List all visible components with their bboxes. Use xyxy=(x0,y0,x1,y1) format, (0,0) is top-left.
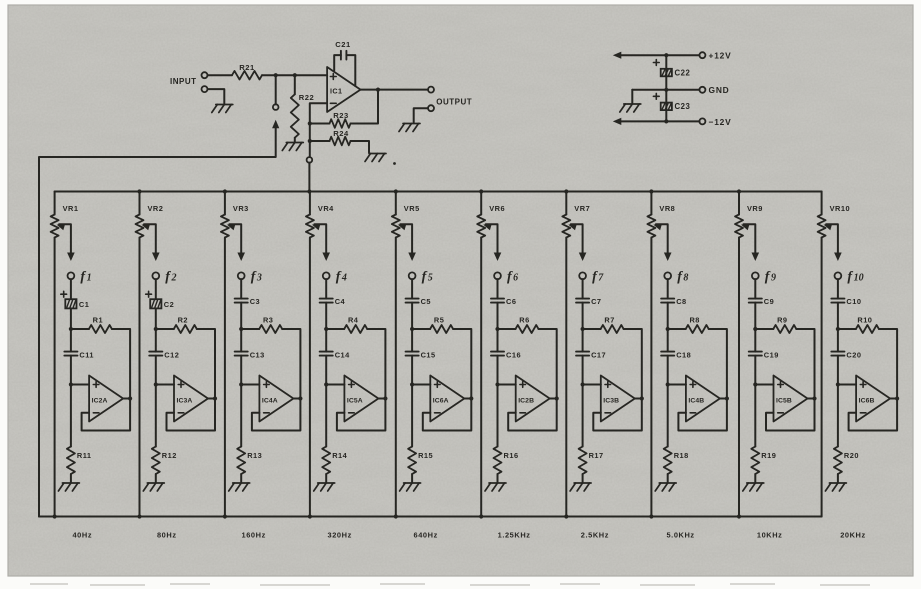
svg-text:1.25KHz: 1.25KHz xyxy=(498,531,531,540)
label VR8 xyxy=(659,204,675,213)
label C10 xyxy=(846,297,861,306)
wire: node to R10 xyxy=(838,328,856,330)
wire: VR3 bottom lead to bottom bus xyxy=(224,238,226,517)
node: top bus junction VR5 xyxy=(394,189,398,193)
resistor R19 xyxy=(751,447,759,475)
wire: node to C12 xyxy=(155,329,157,352)
node: bottom bus junction ch5 xyxy=(394,514,398,518)
label -12V xyxy=(709,117,732,127)
wire: VR6 top lead xyxy=(480,192,482,215)
label C13 xyxy=(250,350,265,359)
arrow: wiper points to f5 xyxy=(408,253,416,262)
wire: + input xyxy=(71,384,89,386)
arrow: wiper points to f3 xyxy=(237,253,245,262)
arrow: wiper points to f9 xyxy=(752,253,760,262)
node: R4 junction xyxy=(324,327,328,331)
label C16 xyxy=(506,350,521,359)
wire: + node to R20 xyxy=(837,385,839,447)
arrow: VR7 wiper head xyxy=(568,224,577,231)
wire: C11 to + input node xyxy=(70,356,72,385)
capacitor C2 (electrolytic) xyxy=(150,299,161,308)
node: + input junction xyxy=(753,382,757,386)
node: bus junction at IC1 feedback / VR4 xyxy=(307,189,311,193)
potentiometer VR7 xyxy=(562,215,570,238)
node: R8 junction xyxy=(666,327,670,331)
wire: feedback loop ch1 xyxy=(82,399,131,431)
wire: node to C14 xyxy=(325,329,327,352)
svg-text:R8: R8 xyxy=(689,315,699,324)
wire: R11 to ground xyxy=(70,474,72,482)
arrow: wiper points to f8 xyxy=(664,253,672,262)
wire: VR1 bottom lead to bottom bus xyxy=(54,238,56,517)
svg-text:VR7: VR7 xyxy=(574,204,590,213)
svg-text:R12: R12 xyxy=(162,451,177,460)
node: R7 junction xyxy=(581,327,585,331)
svg-text:VR3: VR3 xyxy=(233,204,249,213)
label C20 xyxy=(846,350,861,359)
wire: VR8 bottom lead to bottom bus xyxy=(650,238,652,517)
label f8 xyxy=(677,270,688,285)
capacitor C13 xyxy=(235,352,248,356)
resistor R13 xyxy=(237,447,245,475)
resistor R15 xyxy=(408,447,416,475)
label R24 xyxy=(333,129,349,138)
svg-text:C19: C19 xyxy=(764,350,779,359)
wire: connector to top bus xyxy=(308,163,310,192)
svg-text:R14: R14 xyxy=(332,451,347,460)
svg-text:R5: R5 xyxy=(434,315,444,324)
capacitor C7 xyxy=(576,299,589,303)
resistor R21 xyxy=(232,71,262,80)
wire: bus return line from input selector xyxy=(39,125,276,517)
label f5 xyxy=(422,270,433,285)
node: bottom bus junction ch7 xyxy=(564,514,568,518)
wire: node to C19 xyxy=(754,329,756,352)
resistor R18 xyxy=(664,447,672,475)
svg-text:f4: f4 xyxy=(336,270,347,285)
label f7 xyxy=(592,270,604,285)
wire: C15 to + input node xyxy=(411,356,413,385)
wire: feedback loop ch6 xyxy=(508,399,557,431)
resistor R9 xyxy=(773,325,796,333)
label IC4B xyxy=(688,398,704,405)
label R4 xyxy=(348,315,359,324)
wire: +12V rail xyxy=(617,54,700,56)
wire: f5 to C5 xyxy=(411,279,413,298)
wire: OUTPUT lower to ground xyxy=(414,108,428,122)
capacitor C17 xyxy=(576,352,589,356)
node: output junction ch1 xyxy=(128,396,132,400)
op-amp IC2B xyxy=(516,376,550,422)
arrow: VR5 wiper head xyxy=(398,224,407,231)
label VR5 xyxy=(404,204,420,213)
IC3A - marking xyxy=(178,412,184,414)
label C7 xyxy=(591,297,601,306)
label R13 xyxy=(247,451,262,460)
wire: IC4B output to rail xyxy=(720,398,727,400)
capacitor C1 (electrolytic) xyxy=(65,299,76,308)
node: top bus junction VR9 xyxy=(737,189,741,193)
IC4B + marking xyxy=(690,382,696,388)
svg-text:C1: C1 xyxy=(79,300,89,309)
arrow: VR3 wiper head xyxy=(227,224,236,231)
wire: C2 to node xyxy=(155,308,157,329)
svg-text:R2: R2 xyxy=(178,315,188,324)
svg-text:IC3B: IC3B xyxy=(603,398,619,405)
wire: R16 to ground xyxy=(497,474,499,482)
svg-text:IC1: IC1 xyxy=(330,87,342,96)
capacitor C4 xyxy=(320,299,333,303)
label C1 xyxy=(79,300,89,309)
wire: R14 to ground xyxy=(325,474,327,482)
resistor R17 xyxy=(579,447,587,475)
wire: R18 to ground xyxy=(667,474,669,482)
wire: R17 to ground xyxy=(582,474,584,482)
label 20KHz xyxy=(840,531,866,540)
wire: feedback - input run xyxy=(310,103,327,157)
terminal: OUTPUT lower xyxy=(428,105,434,111)
svg-text:VR2: VR2 xyxy=(148,204,164,213)
wire: IC1 output xyxy=(361,89,429,91)
arrow: VR10 wiper head xyxy=(824,224,833,231)
label OUTPUT xyxy=(436,98,472,107)
wire: feedback loop ch9 xyxy=(766,399,815,431)
wire: top bus xyxy=(55,191,822,193)
terminal f9 xyxy=(752,272,759,279)
svg-text:GND: GND xyxy=(709,85,730,95)
node: bottom bus junction ch2 xyxy=(137,514,141,518)
label C14 xyxy=(335,350,350,359)
resistor R20 xyxy=(834,447,842,475)
svg-text:R18: R18 xyxy=(674,451,689,460)
wire: R5 to feedback rail xyxy=(453,329,471,399)
wire: VR6 bottom lead to bottom bus xyxy=(480,238,482,517)
op-amp IC4B xyxy=(686,376,720,422)
mark: period after ground xyxy=(393,162,396,165)
wire: VR4 bottom lead to bottom bus xyxy=(309,238,311,517)
node: bottom bus junction ch4 xyxy=(308,514,312,518)
label C2 xyxy=(164,300,174,309)
node: R5 junction xyxy=(410,327,414,331)
potentiometer VR9 xyxy=(735,215,743,238)
wire: VR1 wiper xyxy=(59,224,71,258)
label IC1 xyxy=(330,87,342,96)
node: output junction ch2 xyxy=(213,396,217,400)
node: bottom bus junction ch8 xyxy=(649,514,653,518)
terminal: OUTPUT upper xyxy=(428,87,434,93)
label R19 xyxy=(761,451,776,460)
svg-text:VR4: VR4 xyxy=(318,204,334,213)
potentiometer VR1 xyxy=(51,215,59,238)
wire: R15 to ground xyxy=(411,474,413,482)
terminal: INPUT lower xyxy=(202,86,208,92)
arrow: VR6 wiper head xyxy=(483,224,492,231)
svg-text:R15: R15 xyxy=(418,451,433,460)
wire: C4 to node xyxy=(325,303,327,329)
label IC2B xyxy=(518,398,534,405)
wire: IC4A output to rail xyxy=(293,398,300,400)
label C21 xyxy=(335,40,351,49)
wire: + node to R19 xyxy=(754,385,756,447)
label R2 xyxy=(178,315,188,324)
arrow: +12V rail left xyxy=(613,52,622,59)
label VR3 xyxy=(233,204,249,213)
wire: node to C17 xyxy=(582,329,584,352)
svg-text:VR5: VR5 xyxy=(404,204,420,213)
wire: R13 to ground xyxy=(240,474,242,482)
node: bottom bus junction ch9 xyxy=(737,514,741,518)
IC1 - input marking xyxy=(330,102,336,104)
label R17 xyxy=(589,451,604,460)
svg-text:C3: C3 xyxy=(250,297,260,306)
svg-text:640Hz: 640Hz xyxy=(414,531,438,540)
wire: + node to R18 xyxy=(667,385,669,447)
ground of supply xyxy=(620,104,641,112)
node: output junction ch8 xyxy=(725,396,729,400)
node: output junction ch10 xyxy=(895,396,899,400)
wire: VR9 wiper xyxy=(744,224,756,258)
label C5 xyxy=(421,297,431,306)
label 80Hz xyxy=(157,531,177,540)
potentiometer VR2 xyxy=(136,215,144,238)
wire: R22 bottom lead xyxy=(294,138,296,142)
arrow: wiper points to f4 xyxy=(322,253,330,262)
wire: node to R1 xyxy=(71,328,89,330)
IC5B + marking xyxy=(778,382,784,388)
label 10KHz xyxy=(757,531,783,540)
wire: R9 to feedback rail xyxy=(796,329,814,399)
wire: IC5A output to rail xyxy=(378,398,385,400)
resistor R2 xyxy=(174,325,197,333)
svg-text:R24: R24 xyxy=(333,129,349,138)
IC3B + marking xyxy=(605,382,611,388)
node: junction at R22 xyxy=(293,73,297,77)
svg-text:R11: R11 xyxy=(77,451,92,460)
wire: VR7 top lead xyxy=(565,192,567,215)
capacitor C12 xyxy=(149,352,162,356)
IC2B + marking xyxy=(520,382,526,388)
wire: feedback loop ch8 xyxy=(678,399,727,431)
wire: node to C20 xyxy=(837,329,839,352)
label R15 xyxy=(418,451,433,460)
wire: C3 to node xyxy=(240,303,242,329)
label INPUT xyxy=(170,77,197,86)
arrow: VR1 wiper head xyxy=(57,224,66,231)
svg-text:f2: f2 xyxy=(165,270,176,285)
node: top bus junction VR7 xyxy=(564,189,568,193)
wire: f9 to C9 xyxy=(754,279,756,298)
label R20 xyxy=(844,451,859,460)
wire: node to R4 xyxy=(326,328,344,330)
op-amp IC1 xyxy=(327,67,360,112)
IC2B - marking xyxy=(520,412,526,414)
svg-text:C21: C21 xyxy=(335,40,351,49)
ground right of R24 xyxy=(365,154,386,162)
node: GND junction xyxy=(664,88,668,92)
svg-text:IC6A: IC6A xyxy=(433,398,449,405)
wire: C12 to + input node xyxy=(155,356,157,385)
wire: R1 to feedback rail xyxy=(112,329,130,399)
svg-text:f9: f9 xyxy=(765,270,776,285)
svg-text:R3: R3 xyxy=(263,315,273,324)
node: + input junction xyxy=(410,382,414,386)
svg-text:R4: R4 xyxy=(348,315,359,324)
arrow: VR2 wiper head xyxy=(142,224,151,231)
potentiometer VR6 xyxy=(477,215,485,238)
wire: input to R21 xyxy=(208,74,233,76)
svg-text:OUTPUT: OUTPUT xyxy=(436,98,472,107)
wire: + input xyxy=(156,384,174,386)
node: R24 left junction xyxy=(308,139,312,143)
svg-text:R23: R23 xyxy=(333,111,348,120)
svg-text:R10: R10 xyxy=(857,315,872,324)
ground ch3 xyxy=(229,483,250,491)
wire: node to C13 xyxy=(240,329,242,352)
wire: + node to R15 xyxy=(411,385,413,447)
ground ch8 xyxy=(655,483,676,491)
node: output junction ch7 xyxy=(640,396,644,400)
wire: + node to R12 xyxy=(155,385,157,447)
label IC6A xyxy=(433,398,449,405)
wire: VR3 top lead xyxy=(224,192,226,215)
wire: IC6A output to rail xyxy=(464,398,471,400)
capacitor C20 xyxy=(831,352,844,356)
arrow: wiper points to f1 xyxy=(67,253,75,262)
wire: GND rail to ground symbol xyxy=(631,90,633,103)
node: + input junction xyxy=(666,382,670,386)
label f6 xyxy=(507,270,518,285)
node: top bus junction VR2 xyxy=(137,189,141,193)
potentiometer VR3 xyxy=(221,215,229,238)
wire: f1 to C1 xyxy=(70,279,72,299)
svg-text:C16: C16 xyxy=(506,350,521,359)
potentiometer VR5 xyxy=(392,215,400,238)
wire: VR10 top lead xyxy=(821,192,823,215)
wire: VR5 wiper xyxy=(400,224,412,258)
arrow: wiper points to f6 xyxy=(494,253,502,262)
resistor R14 xyxy=(322,447,330,475)
label R3 xyxy=(263,315,273,324)
wire: + node to R11 xyxy=(70,385,72,447)
resistor R11 xyxy=(67,447,75,475)
wire: VR3 wiper xyxy=(229,224,241,258)
wire: + input xyxy=(583,384,601,386)
svg-text:R16: R16 xyxy=(504,451,519,460)
node: R6 junction xyxy=(495,327,499,331)
svg-text:C9: C9 xyxy=(764,297,774,306)
label IC2A xyxy=(92,398,108,405)
wire: node to R7 xyxy=(583,328,601,330)
wire: f6 to C6 xyxy=(497,279,499,298)
capacitor C18 xyxy=(661,352,674,356)
IC5A + marking xyxy=(349,382,355,388)
node: output junction ch3 xyxy=(298,396,302,400)
wire: f8 to C8 xyxy=(667,279,669,298)
svg-text:R1: R1 xyxy=(93,315,103,324)
label R12 xyxy=(162,451,177,460)
svg-text:IC5A: IC5A xyxy=(347,398,363,405)
wire: R8 to feedback rail xyxy=(709,329,727,399)
IC2A + marking xyxy=(93,382,99,388)
label R1 xyxy=(93,315,103,324)
svg-text:C8: C8 xyxy=(676,297,686,306)
label f4 xyxy=(336,270,347,285)
node: + input junction xyxy=(154,382,158,386)
svg-text:IC4A: IC4A xyxy=(262,398,278,405)
svg-text:C15: C15 xyxy=(421,350,436,359)
svg-text:f1: f1 xyxy=(80,270,91,285)
label C4 xyxy=(335,297,346,306)
potentiometer VR8 xyxy=(647,215,655,238)
resistor R16 xyxy=(494,447,502,475)
capacitor C3 xyxy=(235,299,248,303)
svg-text:IC2B: IC2B xyxy=(518,398,534,405)
label VR10 xyxy=(830,204,851,213)
wire: R20 to ground xyxy=(837,474,839,482)
node: +12V junction xyxy=(664,53,668,57)
node: bottom bus junction ch1 xyxy=(53,514,57,518)
label IC3B xyxy=(603,398,619,405)
wire: VR2 bottom lead to bottom bus xyxy=(139,238,141,517)
label R21 xyxy=(239,63,255,72)
wire: R4 to feedback rail xyxy=(367,329,385,399)
svg-text:C4: C4 xyxy=(335,297,346,306)
label C17 xyxy=(591,350,606,359)
terminal f6 xyxy=(494,272,501,279)
svg-text:R19: R19 xyxy=(761,451,776,460)
wire: + node to R13 xyxy=(240,385,242,447)
capacitor C6 xyxy=(491,299,504,303)
node: bottom bus junction ch6 xyxy=(479,514,483,518)
svg-text:80Hz: 80Hz xyxy=(157,531,177,540)
wire: IC3B output to rail xyxy=(635,398,642,400)
node: R10 junction xyxy=(836,327,840,331)
svg-text:C6: C6 xyxy=(506,297,516,306)
op-amp IC6B xyxy=(856,376,890,422)
svg-text:VR9: VR9 xyxy=(747,204,763,213)
label 160Hz xyxy=(242,531,266,540)
wire: GND rail xyxy=(632,89,699,91)
wire: C5 to node xyxy=(411,303,413,329)
wire: VR7 wiper xyxy=(571,224,583,258)
IC6B + marking xyxy=(860,382,866,388)
wire: VR9 top lead xyxy=(738,192,740,215)
capacitor C22 xyxy=(661,69,672,77)
resistor R24 xyxy=(330,137,351,146)
node: output junction xyxy=(376,88,380,92)
capacitor C21 xyxy=(334,51,355,86)
label VR4 xyxy=(318,204,334,213)
svg-text:40Hz: 40Hz xyxy=(72,531,92,540)
wire: VR5 bottom lead to bottom bus xyxy=(395,238,397,517)
svg-text:f7: f7 xyxy=(592,270,604,285)
wire: IC2B output to rail xyxy=(550,398,557,400)
node: output junction ch5 xyxy=(469,396,473,400)
svg-text:VR6: VR6 xyxy=(489,204,505,213)
wire: C8 to node xyxy=(667,303,669,329)
node: R9 junction xyxy=(753,327,757,331)
terminal: feedback bus connector xyxy=(307,157,313,163)
svg-text:C2: C2 xyxy=(164,300,174,309)
ground ch2 xyxy=(143,483,164,491)
wire: R2 to feedback rail xyxy=(197,329,215,399)
ground ch6 xyxy=(485,483,506,491)
label C15 xyxy=(421,350,436,359)
polarity + of C1 xyxy=(61,291,67,297)
label f10 xyxy=(847,270,863,285)
wire: node to R9 xyxy=(755,328,773,330)
wire: + node to R16 xyxy=(497,385,499,447)
